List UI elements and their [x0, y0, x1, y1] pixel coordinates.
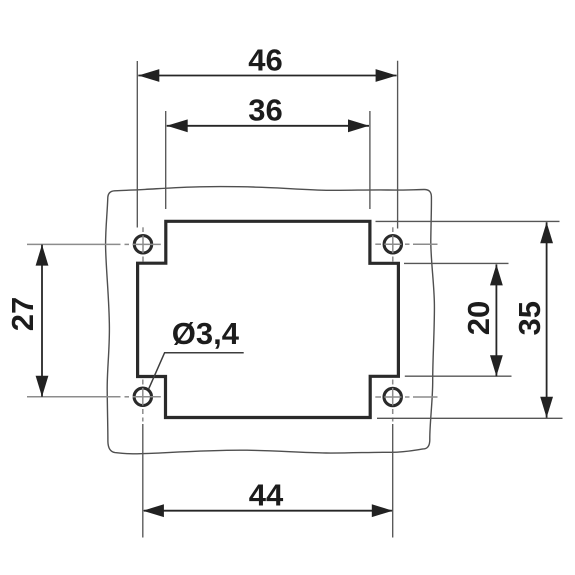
centerline vertical top-right hole	[392, 227, 394, 261]
svg-text:44: 44	[249, 478, 284, 513]
panel cutout (thick stepped rectangle)	[138, 221, 399, 417]
dimension line 46	[138, 75, 396, 77]
arrow bottom of dim 35	[540, 397, 553, 418]
leader line of hole diameter label	[149, 353, 244, 389]
hole bottom-left	[134, 388, 151, 405]
arrow left of dim 36	[167, 119, 188, 132]
svg-text:20: 20	[461, 301, 496, 335]
label 20	[461, 301, 496, 335]
svg-text:Ø3,4: Ø3,4	[172, 316, 240, 351]
arrow left of dim 46	[138, 69, 159, 82]
arrow left of dim 44	[143, 504, 164, 517]
extension line bottom for dim 20	[405, 375, 512, 377]
hole bottom-right	[384, 388, 401, 405]
arrow right of dim 46	[376, 69, 397, 82]
extension line left for dim 36	[165, 111, 167, 209]
dimension line 27	[41, 245, 43, 397]
label 27	[5, 297, 40, 331]
svg-text:46: 46	[248, 42, 282, 77]
panel outline (wavy broken-out section of mounting plate)	[106, 187, 435, 454]
arrow top of dim 20	[490, 264, 503, 285]
dimension line 44	[144, 510, 392, 512]
dimension line 35	[546, 222, 548, 417]
hole top-left	[134, 236, 151, 253]
centerline vertical bottom-left hole	[142, 380, 144, 422]
arrow top of dim 27	[36, 245, 49, 266]
centerline horizontal top-left hole	[27, 243, 161, 245]
extension line top for dim 35	[376, 220, 560, 222]
extension line bottom for dim 35	[377, 417, 563, 419]
extension line left for dim 46	[136, 61, 138, 228]
arrow bottom of dim 27	[36, 376, 49, 397]
centerline horizontal bottom-right hole	[375, 396, 437, 398]
extension line right for dim 46	[397, 61, 399, 229]
dimension line 36	[167, 125, 369, 127]
svg-text:35: 35	[512, 301, 547, 335]
centerline vertical bottom-right hole	[392, 380, 394, 422]
arrow top of dim 35	[540, 222, 553, 243]
extension line top for dim 20	[404, 262, 509, 264]
extension line right for dim 44	[392, 424, 394, 538]
centerline horizontal bottom-left hole	[27, 396, 161, 398]
hole top-right	[384, 236, 401, 253]
dimension line 20	[495, 264, 497, 376]
arrow right of dim 44	[372, 504, 393, 517]
arrow right of dim 36	[348, 119, 369, 132]
svg-text:27: 27	[5, 297, 40, 331]
centerline vertical top-left hole	[142, 227, 144, 261]
label 35	[512, 301, 547, 335]
extension line right for dim 36	[369, 111, 371, 209]
centerline horizontal top-right hole	[375, 243, 437, 245]
extension line left for dim 44	[142, 424, 144, 538]
svg-text:36: 36	[248, 93, 282, 128]
arrow bottom of dim 20	[490, 355, 503, 376]
